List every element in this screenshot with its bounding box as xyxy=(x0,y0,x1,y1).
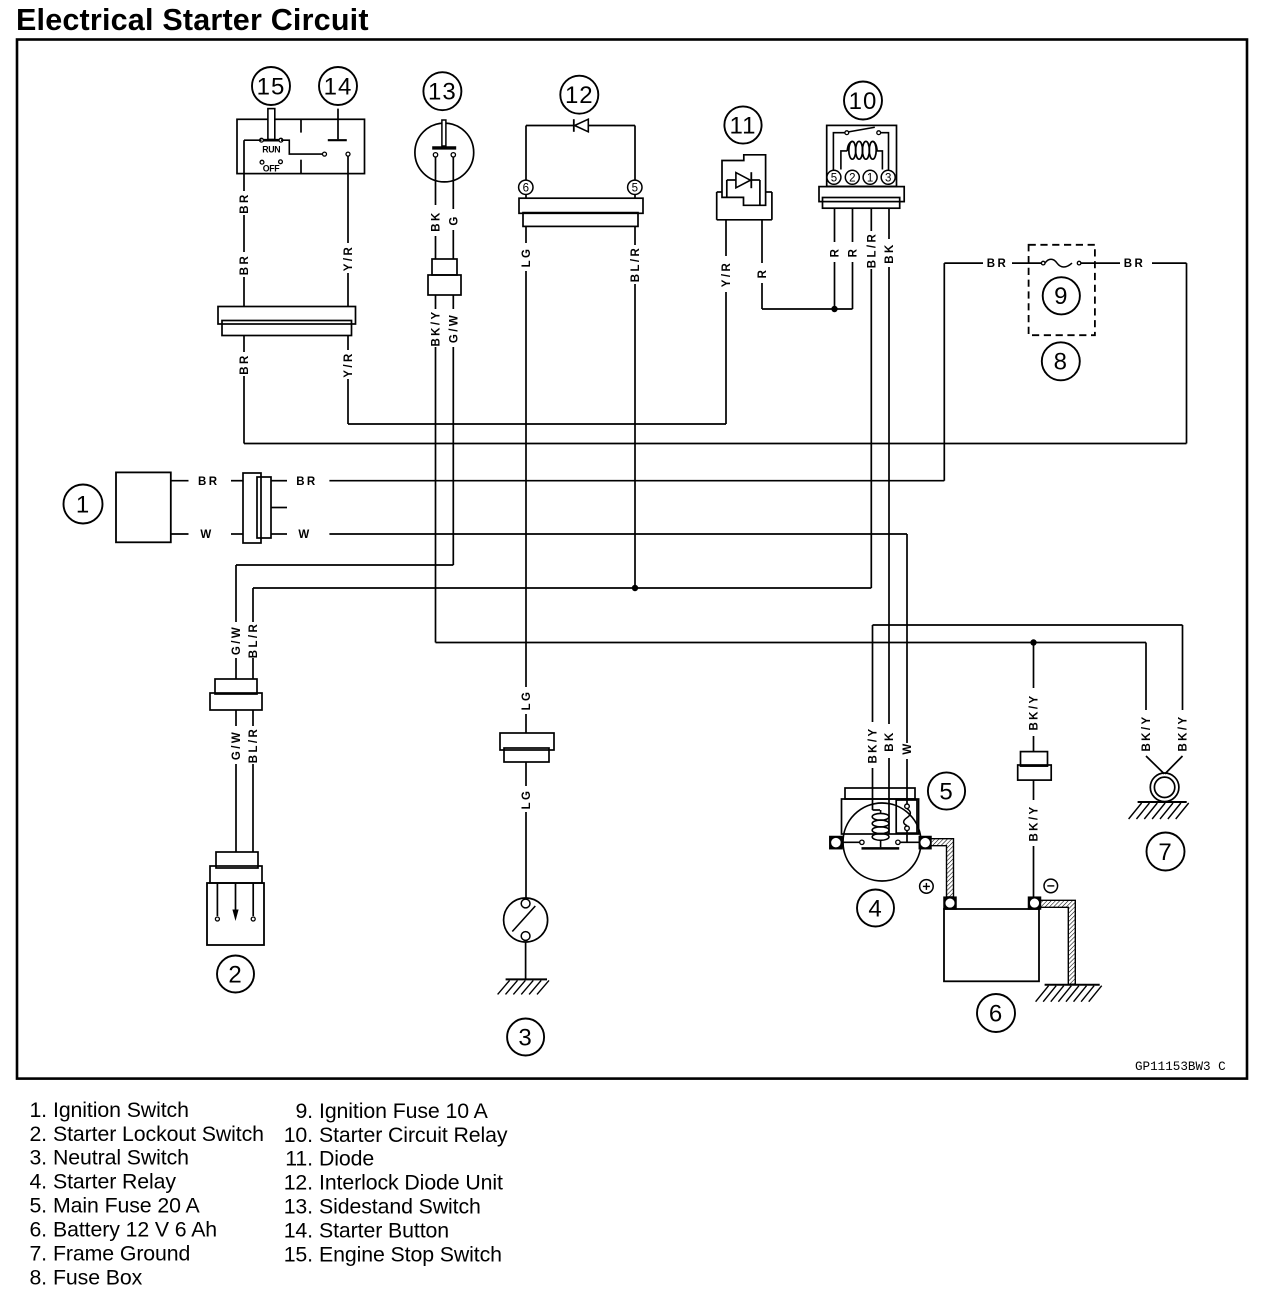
main fuse 5 contacts xyxy=(905,804,910,809)
svg-text:G/W: G/W xyxy=(231,730,243,760)
battery 6 positive terminal xyxy=(944,897,956,909)
svg-text:Y/R: Y/R xyxy=(721,261,733,287)
ignition fuse 9 contacts xyxy=(1041,261,1045,265)
svg-text:5: 5 xyxy=(831,172,837,184)
wire neutral switch to ground xyxy=(525,942,527,979)
wire BL/R segment xyxy=(252,658,254,679)
connector interlock diode unit xyxy=(519,198,643,213)
wire BL/R horizontal bus xyxy=(253,587,871,589)
svg-text:BR: BR xyxy=(239,192,251,213)
wire G/W segment 2 down xyxy=(452,347,454,565)
sidestand switch 13 plunger stem xyxy=(442,120,446,146)
relay 4 contact line right xyxy=(900,841,919,843)
svg-text:LG: LG xyxy=(521,247,533,268)
label circle 9 xyxy=(1043,277,1080,314)
svg-text:15.: 15. xyxy=(284,1243,313,1267)
svg-text:W: W xyxy=(200,529,213,541)
relay 10 contact lead left xyxy=(833,133,845,171)
svg-text:2: 2 xyxy=(228,961,242,988)
wire Y/R segment 2 xyxy=(347,273,349,307)
wire W ignition stub xyxy=(171,533,189,535)
frame ground 7 ring terminal xyxy=(1150,773,1179,802)
starter circuit relay 10 case xyxy=(827,125,897,186)
pin 2 relay 10 xyxy=(845,170,859,184)
pin 1 relay 10 xyxy=(863,170,877,184)
main fuse 5 element xyxy=(904,809,911,826)
starter relay coil jog xyxy=(873,809,881,811)
wire BR horizontal bus xyxy=(244,443,1187,445)
engine stop switch 15 and starter button 14 housing xyxy=(237,119,365,173)
fuse box 8 dashed outline xyxy=(1029,245,1095,335)
relay 4 terminal right xyxy=(919,837,931,849)
svg-text:Electrical Starter Circuit: Electrical Starter Circuit xyxy=(16,3,369,37)
wire W to connector xyxy=(231,533,243,535)
relay 4 armature bar xyxy=(862,847,900,850)
svg-text:9: 9 xyxy=(1054,283,1068,310)
wire BR engine stop switch vertical segment 1 xyxy=(243,174,245,191)
svg-text:BR: BR xyxy=(198,476,219,488)
svg-text:6: 6 xyxy=(523,182,529,194)
wire BL/R segment 3 xyxy=(252,764,254,852)
connector neutral switch xyxy=(500,733,554,750)
wire R relay pin2 segment 1 xyxy=(852,208,854,242)
wire BK sidestand segment 1 xyxy=(435,157,437,205)
svg-text:Starter Relay: Starter Relay xyxy=(53,1170,176,1194)
wire G segment 2 xyxy=(452,230,454,259)
svg-text:Interlock Diode Unit: Interlock Diode Unit xyxy=(319,1171,503,1195)
wire BK relay pin3 segment 1 xyxy=(888,208,890,239)
wire G/W drop to lockout xyxy=(235,565,237,622)
wire BL/R segment 2 xyxy=(252,710,254,726)
label circle 8 xyxy=(1042,342,1080,380)
connector battery negative lead xyxy=(1021,752,1048,767)
wire BK/Y branch segment 1 xyxy=(1033,643,1035,689)
svg-text:5: 5 xyxy=(939,778,953,805)
svg-text:R: R xyxy=(830,247,842,258)
relay 10 coil lead right xyxy=(876,151,882,170)
wire BR bus riser to fuse box xyxy=(1186,263,1188,443)
wire Y/R horizontal bus to diode xyxy=(348,423,726,425)
svg-text:13: 13 xyxy=(428,79,457,106)
battery negative symbol xyxy=(1044,879,1058,893)
starter relay 4 cap rect xyxy=(845,788,915,799)
svg-text:12: 12 xyxy=(565,82,594,109)
wire G/W segment 3 xyxy=(235,764,237,852)
svg-text:5.: 5. xyxy=(29,1194,47,1218)
svg-text:14: 14 xyxy=(324,73,353,100)
svg-text:9.: 9. xyxy=(295,1099,313,1123)
connector stub BR xyxy=(271,480,287,482)
pin 5 lead xyxy=(634,195,636,198)
label circle 5 xyxy=(928,772,965,809)
label circle 1 xyxy=(64,485,103,524)
lockout switch fixed contact left xyxy=(216,883,218,916)
svg-text:10: 10 xyxy=(849,88,878,115)
svg-text:Y/R: Y/R xyxy=(343,245,355,271)
wire BK/Y into relay xyxy=(872,768,874,810)
wire RUN contact to starter button contact xyxy=(281,140,322,154)
wire BL/R drop to lockout xyxy=(252,588,254,622)
wire BK/Y drop to starter relay segment 1 xyxy=(872,625,874,722)
sidestand switch contacts xyxy=(433,153,437,157)
svg-text:7.: 7. xyxy=(29,1242,47,1266)
wire BK/Y sidestand segment 1 xyxy=(435,295,437,309)
svg-text:Engine Stop Switch: Engine Stop Switch xyxy=(319,1243,502,1267)
relay 10 contact lead right xyxy=(881,133,889,171)
svg-text:BK: BK xyxy=(884,730,896,751)
svg-text:7: 7 xyxy=(1158,839,1172,866)
wire R horizontal to relay pins xyxy=(762,308,853,310)
relay 4 contact left xyxy=(860,840,864,844)
wire BR segment 3 xyxy=(243,277,245,307)
wire LG segment 1 xyxy=(525,226,527,243)
junction dot BK/Y bus xyxy=(1030,639,1036,645)
wire BL/R relay pin1 segment 1 xyxy=(870,208,872,231)
wire BR fuse left drop xyxy=(943,263,945,481)
connector lockout upper xyxy=(215,679,257,694)
ground battery negative xyxy=(1045,984,1100,986)
svg-text:13.: 13. xyxy=(284,1195,313,1219)
wire BK/Y frame ground right drop xyxy=(1182,625,1184,710)
svg-text:Sidestand Switch: Sidestand Switch xyxy=(319,1195,481,1219)
wire BR to bus corner xyxy=(1152,262,1187,264)
neutral switch contact top xyxy=(521,899,530,908)
svg-text:BK/Y: BK/Y xyxy=(1029,693,1041,730)
svg-text:BK: BK xyxy=(884,242,896,263)
engine stop switch 15 pivot bar xyxy=(261,139,283,142)
wire W main run xyxy=(329,533,907,535)
relay 4 contact line left xyxy=(842,841,860,843)
wire Y/R starter button vertical segment 1 xyxy=(347,156,349,243)
wire BR fuse right horizontal xyxy=(1081,262,1120,264)
svg-text:BR: BR xyxy=(1124,258,1145,270)
wire G sidestand segment 1 xyxy=(452,157,454,209)
svg-text:BL/R: BL/R xyxy=(630,246,642,282)
wire BK/Y branch segment 4 xyxy=(1033,846,1035,897)
connector stub W xyxy=(271,533,287,535)
battery positive cable xyxy=(931,839,954,897)
diode 11 inner bracket xyxy=(726,180,728,197)
svg-text:BR: BR xyxy=(239,353,251,374)
svg-text:BR: BR xyxy=(239,254,251,275)
connector diode 11 xyxy=(717,191,722,193)
wire Y/R segment 3 xyxy=(347,336,349,351)
svg-text:14.: 14. xyxy=(284,1219,313,1243)
svg-text:4: 4 xyxy=(868,895,882,922)
svg-text:OFF: OFF xyxy=(263,163,281,173)
wire W into main fuse xyxy=(906,759,908,804)
svg-text:GP11153BW3 C: GP11153BW3 C xyxy=(1135,1060,1226,1074)
svg-text:Ignition Switch: Ignition Switch xyxy=(53,1098,189,1122)
relay 10 coil lead left xyxy=(841,151,847,170)
svg-text:12.: 12. xyxy=(284,1171,313,1195)
wire LG segment 3 xyxy=(525,714,527,733)
battery negative cable to ground xyxy=(1041,900,1076,984)
battery positive symbol xyxy=(920,880,934,894)
svg-text:11: 11 xyxy=(730,112,757,139)
svg-text:G: G xyxy=(448,214,460,225)
svg-text:Diode: Diode xyxy=(319,1147,374,1171)
svg-text:BK/Y: BK/Y xyxy=(868,726,880,763)
svg-text:1: 1 xyxy=(76,491,90,518)
svg-text:2: 2 xyxy=(849,172,855,184)
wire BL/R from pin5 segment 1 xyxy=(634,226,636,245)
lockout switch fixed contact right xyxy=(252,883,254,916)
label circle 4 xyxy=(857,890,894,927)
main fuse 5 sub-box xyxy=(896,800,917,833)
starter button contact left xyxy=(323,152,327,156)
ignition switch 1 body xyxy=(116,472,171,542)
label circle 15 xyxy=(252,67,290,105)
relay 10 switch contacts xyxy=(845,131,849,135)
connector sidestand switch xyxy=(432,259,457,275)
svg-text:Main Fuse 20 A: Main Fuse 20 A xyxy=(53,1194,200,1218)
starter relay 4 solenoid circle xyxy=(843,803,921,881)
svg-text:3: 3 xyxy=(518,1024,532,1051)
starter button 14 actuator wire xyxy=(337,109,339,140)
wire BR ignition stub xyxy=(171,480,189,482)
wire BR to connector xyxy=(231,480,243,482)
label circle 2 xyxy=(217,956,254,993)
wire R pin2 segment 2 xyxy=(852,262,854,309)
svg-text:8.: 8. xyxy=(29,1266,47,1290)
svg-text:RUN: RUN xyxy=(262,144,280,154)
housing divider dashes xyxy=(300,120,302,133)
battery 6 negative terminal xyxy=(1029,897,1041,909)
connector ignition switch xyxy=(243,473,261,543)
wire BK segment to starter relay xyxy=(888,758,890,834)
svg-text:6: 6 xyxy=(989,1000,1003,1027)
engine stop switch OFF contacts xyxy=(260,160,264,164)
connector stub middle xyxy=(271,507,287,509)
main fuse lead to contact line xyxy=(906,831,908,843)
svg-text:BK/Y: BK/Y xyxy=(1029,804,1041,841)
wire W drop to main fuse xyxy=(906,534,908,743)
interlock diode unit 12 loop wires xyxy=(526,125,574,127)
svg-text:8: 8 xyxy=(1054,349,1068,376)
wire BR main run to fuse xyxy=(329,480,944,482)
starter button contact right xyxy=(346,152,350,156)
relay 4 contact right xyxy=(896,840,900,844)
wire Y/R riser to diode 11 xyxy=(725,292,727,424)
starter relay 4 coil xyxy=(872,813,889,820)
wire R pin5 segment 2 xyxy=(834,262,836,309)
wire BK/Y segment 2 down xyxy=(435,347,437,643)
wire BL/R pin1 long run to junction bus xyxy=(870,269,872,588)
connector engine stop switch harness xyxy=(218,307,356,325)
svg-text:4.: 4. xyxy=(29,1170,47,1194)
label circle 6 xyxy=(977,994,1015,1032)
svg-text:Y/R: Y/R xyxy=(343,351,355,377)
svg-text:10.: 10. xyxy=(284,1123,313,1147)
label circle 13 xyxy=(423,72,461,110)
lockout switch moving contact arrow xyxy=(235,883,237,911)
svg-text:1.: 1. xyxy=(29,1098,47,1122)
label circle 12 xyxy=(560,76,598,114)
sidestand switch 13 body xyxy=(415,123,474,182)
pin 6 lead xyxy=(525,195,527,198)
battery 6 body xyxy=(944,909,1039,981)
wire BK/Y bus upper xyxy=(873,624,1183,626)
engine stop switch 15 toggle stem xyxy=(268,109,275,140)
svg-text:BK: BK xyxy=(431,210,443,231)
diode 11 diode symbol xyxy=(736,173,751,188)
svg-text:5: 5 xyxy=(632,182,638,194)
svg-text:R: R xyxy=(848,247,860,258)
wire BK/Y horizontal bus xyxy=(436,642,1147,644)
svg-text:G/W: G/W xyxy=(231,625,243,655)
interlock diode unit diode symbol xyxy=(575,119,589,132)
wire from RUN contact to node xyxy=(244,139,262,141)
wire Y/R riser segment 2 xyxy=(725,220,727,256)
starter lockout switch 2 body xyxy=(207,883,264,945)
wire BR segment 2 xyxy=(243,215,245,252)
wire BK/Y branch segment 3 xyxy=(1033,780,1035,800)
relay 4 terminal left xyxy=(830,837,842,849)
svg-text:3: 3 xyxy=(885,172,891,184)
svg-text:BL/R: BL/R xyxy=(248,622,260,658)
connector starter circuit relay xyxy=(819,187,904,202)
wire BK segment 2 xyxy=(435,236,437,259)
relay 10 switch arm xyxy=(849,127,875,132)
svg-text:Frame Ground: Frame Ground xyxy=(53,1242,190,1266)
wire LG segment 4 xyxy=(525,762,527,786)
wire G/W sidestand segment 1 xyxy=(452,295,454,309)
svg-text:3.: 3. xyxy=(29,1146,47,1170)
wire G/W segment xyxy=(235,658,237,679)
svg-text:BR: BR xyxy=(296,476,317,488)
svg-text:W: W xyxy=(902,741,914,754)
svg-text:6.: 6. xyxy=(29,1218,47,1242)
pin 5 relay 10 xyxy=(827,170,841,184)
wire BR into fuse box xyxy=(1012,262,1042,264)
wire R relay pin5 segment 1 xyxy=(834,208,836,242)
wire G/W segment 2 xyxy=(235,710,237,726)
svg-text:BL/R: BL/R xyxy=(866,232,878,268)
svg-text:R: R xyxy=(757,268,769,279)
diode 11 body outline xyxy=(722,155,766,206)
starter relay 4 case xyxy=(842,799,919,834)
wire BR segment 4 xyxy=(243,336,245,353)
label circle 11 xyxy=(724,106,761,143)
wire G/W horizontal to lockout switch xyxy=(236,564,453,566)
svg-text:11.: 11. xyxy=(285,1147,313,1171)
junction dot R wires xyxy=(831,306,837,312)
ignition fuse 9 element xyxy=(1045,259,1072,267)
svg-text:Starter Lockout Switch: Starter Lockout Switch xyxy=(53,1122,264,1146)
svg-text:Neutral Switch: Neutral Switch xyxy=(53,1146,189,1170)
label circle 10 xyxy=(844,82,882,120)
svg-text:Starter Button: Starter Button xyxy=(319,1219,449,1243)
neutral switch contact bottom xyxy=(521,932,530,941)
sidestand switch 13 contact bar xyxy=(432,146,456,149)
label circle 14 xyxy=(319,67,357,105)
wire BK/Y frame ground left drop xyxy=(1145,643,1147,711)
svg-text:LG: LG xyxy=(521,789,533,810)
svg-text:BK/Y: BK/Y xyxy=(431,309,443,346)
connector lockout lower xyxy=(216,852,258,868)
engine stop switch RUN contacts xyxy=(260,138,264,142)
wire R segment 2 xyxy=(761,283,763,309)
wire R diode segment 1 xyxy=(761,220,763,263)
ground frame xyxy=(1138,801,1187,803)
svg-text:BL/R: BL/R xyxy=(248,727,260,763)
svg-text:Ignition Fuse 10 A: Ignition Fuse 10 A xyxy=(319,1099,489,1123)
neutral switch arm xyxy=(512,906,535,932)
wire BL/R segment 2 to junction xyxy=(634,284,636,588)
junction dot BL/R bus xyxy=(632,585,638,591)
svg-text:2.: 2. xyxy=(29,1122,47,1146)
wire Y/R segment 4 to bus xyxy=(347,379,349,424)
pin 3 relay 10 xyxy=(881,170,895,184)
svg-text:G/W: G/W xyxy=(448,313,460,343)
wire BR fuse left horizontal xyxy=(944,262,983,264)
svg-text:BR: BR xyxy=(987,258,1008,270)
wire BK/Y right diagonal xyxy=(1165,756,1183,774)
wire LG segment 5 xyxy=(525,812,527,898)
neutral switch 3 body xyxy=(504,898,548,942)
wire LG segment 2 long run xyxy=(525,271,527,687)
svg-text:Fuse Box: Fuse Box xyxy=(53,1266,143,1290)
starter button 14 cap bar xyxy=(328,139,347,141)
wire BK/Y left diagonal xyxy=(1146,756,1164,774)
svg-text:Starter Circuit Relay: Starter Circuit Relay xyxy=(319,1123,508,1147)
svg-text:W: W xyxy=(298,529,311,541)
relay 10 coil xyxy=(849,141,856,159)
label circle 7 xyxy=(1147,833,1185,871)
svg-text:BK/Y: BK/Y xyxy=(1141,714,1153,751)
wire BK/Y branch segment 2 xyxy=(1033,736,1035,752)
svg-text:1: 1 xyxy=(867,172,873,184)
svg-text:Battery 12 V 6 Ah: Battery 12 V 6 Ah xyxy=(53,1218,217,1242)
pin 5 interlock diode unit xyxy=(628,180,642,194)
pin 6 interlock diode unit xyxy=(519,180,533,194)
label circle 3 xyxy=(507,1019,544,1056)
ground neutral switch xyxy=(506,978,547,980)
svg-text:LG: LG xyxy=(521,690,533,711)
svg-text:15: 15 xyxy=(257,73,286,100)
wire BR segment 5 to bus xyxy=(243,376,245,444)
wire BK pin3 long run xyxy=(888,267,890,724)
svg-text:BK/Y: BK/Y xyxy=(1178,714,1190,751)
